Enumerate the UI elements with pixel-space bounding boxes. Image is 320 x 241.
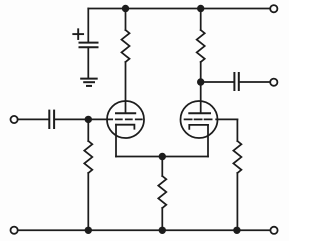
wire R3 to bottom rail: [87, 173, 89, 230]
wire grid node into V1: [88, 118, 112, 120]
wire cathode node to R5: [161, 157, 163, 177]
tube V2 plate: [189, 112, 210, 114]
wire C1 to ground: [87, 47, 89, 78]
node cathode junction: [159, 153, 166, 160]
node bottom rail / R4: [233, 227, 240, 234]
wire rail to R1: [125, 9, 127, 31]
wire V1 cathode lead down: [115, 125, 117, 157]
terminal bottom left: [11, 227, 18, 234]
wire R1 to plate V1: [125, 62, 127, 113]
wire cathode bus: [116, 156, 208, 158]
capacitor C2 input coupling: [49, 111, 54, 128]
tube V2 cathode: [189, 125, 208, 129]
resistor R4 right grid leak: [233, 141, 241, 173]
capacitor C1 plus sign: [73, 29, 83, 39]
wire grid node to R3: [87, 119, 89, 141]
tube V1 cathode: [116, 125, 134, 129]
terminal bottom right: [270, 227, 277, 234]
tube V1 grid (dashed): [116, 118, 142, 120]
terminal input left: [11, 116, 18, 123]
node top rail / R1 junction: [122, 5, 129, 12]
terminal B+ top right: [270, 5, 277, 12]
wire R4 to bottom rail: [236, 173, 238, 230]
wire R2 to plate V2: [200, 62, 202, 113]
resistor R1 left plate load: [122, 30, 130, 62]
capacitor C3 output coupling: [234, 73, 238, 90]
resistor R3 left grid leak: [84, 141, 92, 173]
wire R5 to bottom rail: [161, 208, 163, 230]
wire top supply rail: [88, 8, 270, 10]
tube V1 envelope: [107, 101, 144, 138]
wire V2 grid exit to right: [216, 118, 237, 120]
resistor R5 shared cathode: [158, 176, 166, 208]
wire C2 to grid node: [55, 118, 88, 120]
wire supply drop to filter cap: [87, 9, 89, 43]
tube V2 envelope: [181, 101, 218, 138]
capacitor C1 plates: [80, 43, 98, 48]
wire grid V2 corner down to R4: [236, 119, 238, 141]
ground: [81, 79, 97, 86]
wire rail to R2: [200, 9, 202, 31]
wire V2 cathode lead down: [207, 125, 209, 157]
wire plate node to C3: [201, 81, 234, 83]
wire bottom ground rail: [18, 229, 271, 231]
wire C3 to output terminal: [240, 81, 271, 83]
tube V2 grid (dashed): [185, 118, 213, 120]
tube V1 plate: [116, 112, 135, 114]
node plate V2 / output junction: [197, 78, 204, 85]
wire input terminal to C2: [18, 118, 49, 120]
node bottom rail / R3: [85, 227, 92, 234]
node grid V1 junction: [85, 116, 92, 123]
terminal output right: [270, 79, 277, 86]
node bottom rail / R5: [159, 227, 166, 234]
node top rail / R2 junction: [197, 5, 204, 12]
resistor R2 right plate load: [197, 30, 205, 62]
